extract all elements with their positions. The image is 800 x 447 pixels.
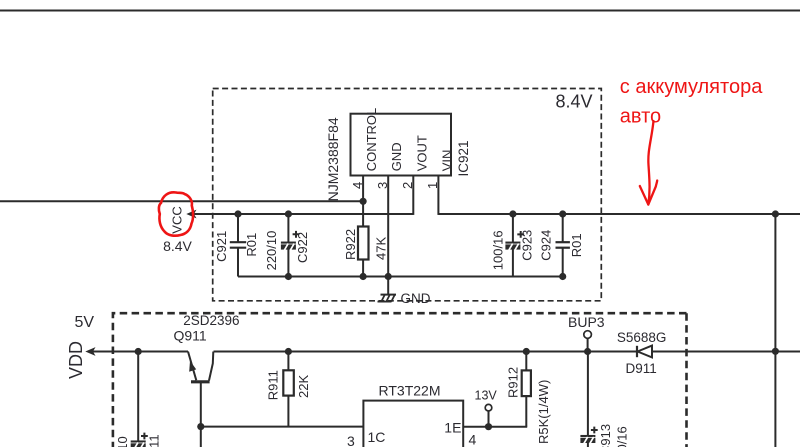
arrowhead: VDD to the left (85, 347, 95, 356)
svg-text:R01: R01 (244, 233, 259, 257)
red hand-drawn arrow (648, 121, 653, 205)
transistor Q911 (191, 380, 210, 383)
svg-text:220/10: 220/10 (264, 231, 279, 271)
electrolytic capacitor C922 (220/10) (287, 214, 289, 243)
wire: pin 3 stub down to bottom rail (387, 176, 389, 277)
wire: VIN line from pin 1 to right edge (438, 213, 800, 215)
junction: CONTROL / R922 node (360, 198, 367, 205)
wire: incoming 8.4V line (left edge to CONTROL node) (0, 200, 363, 202)
wire: full-width top horizontal line (0, 10, 800, 12)
wire: VDD rail collector to right rail (diode interrupts) (214, 351, 638, 353)
wire: pin 2 stub down to VCC wire (412, 176, 414, 215)
svg-text:GND: GND (401, 291, 431, 306)
diode D911 (S5688G) (636, 346, 638, 357)
dashed region box: 8.4V regulator section (213, 89, 602, 301)
svg-text:100/16: 100/16 (615, 426, 630, 447)
ground symbol (387, 277, 389, 295)
wire: base lead down (200, 383, 202, 447)
junction: right rail / backup line (772, 348, 779, 355)
resistor R912 (R5K 1/4W) (522, 370, 531, 396)
junction: right rail top (772, 210, 779, 217)
junction: C922 bottom (285, 273, 292, 280)
junction: 13V test point node (485, 423, 492, 430)
svg-text:4: 4 (469, 432, 477, 447)
capacitor C924 (value R01) (562, 214, 564, 242)
junction: base node (197, 423, 204, 430)
svg-text:C913: C913 (598, 424, 613, 447)
svg-text:VDD: VDD (66, 341, 86, 379)
electrolytic capacitor C923 (100/16) (512, 214, 514, 243)
wire: right vertical rail (774, 214, 776, 447)
svg-text:8.4V: 8.4V (556, 92, 593, 112)
dashed region box: lower section (113, 313, 687, 447)
svg-text:BUP3: BUP3 (568, 314, 605, 330)
junction: C924 bottom (559, 273, 566, 280)
svg-text:R922: R922 (343, 229, 358, 260)
wire: VCC output line with left arrow (193, 213, 413, 215)
wire: base node to RT3T22M pin 3 (201, 426, 364, 428)
resistor R911 (22K) (285, 348, 292, 355)
svg-text:1C: 1C (368, 429, 386, 445)
red hand-drawn circle around VCC (159, 192, 193, 235)
relay/module RT3T22M box (363, 401, 463, 447)
arrowhead: VCC to the left (186, 210, 196, 219)
wire: VDD rail to transistor emitter (92, 351, 188, 353)
svg-text:GND: GND (389, 142, 404, 171)
svg-text:100/16: 100/16 (490, 230, 505, 270)
svg-text:1E: 1E (444, 419, 461, 435)
svg-text:VOUT: VOUT (414, 135, 429, 171)
wire: pin 4 stub down to R922 (362, 176, 364, 227)
wire: bottom rail of regulator section (238, 276, 563, 278)
svg-text:R911: R911 (266, 370, 281, 400)
junction: GND pin bottom (385, 273, 392, 280)
svg-text:5V: 5V (75, 314, 95, 331)
op-amp/regulator IC921 body (351, 114, 452, 176)
svg-text:IC921: IC921 (456, 140, 471, 176)
svg-text:VIN: VIN (439, 150, 454, 172)
svg-text:3: 3 (347, 433, 355, 447)
svg-text:VCC: VCC (170, 206, 185, 233)
electrolytic capacitor C913 (100/16, cut off) (587, 352, 589, 437)
svg-text:C921: C921 (214, 231, 229, 262)
svg-text:2SD2396: 2SD2396 (183, 313, 239, 328)
svg-text:RT3T22M: RT3T22M (379, 382, 441, 398)
svg-text:с аккумулятора: с аккумулятора (620, 76, 763, 98)
svg-text:NJM2388F84: NJM2388F84 (325, 117, 341, 201)
svg-text:D911: D911 (626, 361, 657, 376)
svg-text:47K: 47K (374, 237, 389, 260)
capacitor C921 (value R01) (237, 214, 239, 242)
svg-text:100/10: 100/10 (115, 436, 130, 447)
svg-text:8.4V: 8.4V (163, 238, 192, 254)
electrolytic capacitor C911 (100/10, cut off) (137, 352, 139, 442)
svg-text:C924: C924 (539, 230, 554, 261)
svg-text:CONTROL: CONTROL (364, 108, 379, 172)
svg-text:R912: R912 (506, 367, 521, 398)
svg-text:13V: 13V (475, 389, 498, 403)
svg-text:авто: авто (620, 106, 661, 128)
wire: pin 1E to R912 (463, 426, 527, 428)
svg-text:Q911: Q911 (174, 328, 207, 344)
svg-text:C923: C923 (520, 230, 535, 261)
junction: R922 bottom (360, 273, 367, 280)
test point 13V (488, 411, 490, 427)
wire: pin 1 stub down to VIN wire (437, 176, 439, 215)
svg-text:22K: 22K (296, 375, 311, 398)
junction: C911 tap (135, 348, 142, 355)
resistor R922 (47K) (358, 227, 369, 260)
svg-text:S5688G: S5688G (617, 330, 667, 345)
svg-text:C911: C911 (147, 434, 162, 447)
svg-text:R5K(1/4W): R5K(1/4W) (536, 380, 551, 444)
svg-text:C922: C922 (295, 232, 310, 263)
svg-text:R01: R01 (569, 233, 584, 257)
